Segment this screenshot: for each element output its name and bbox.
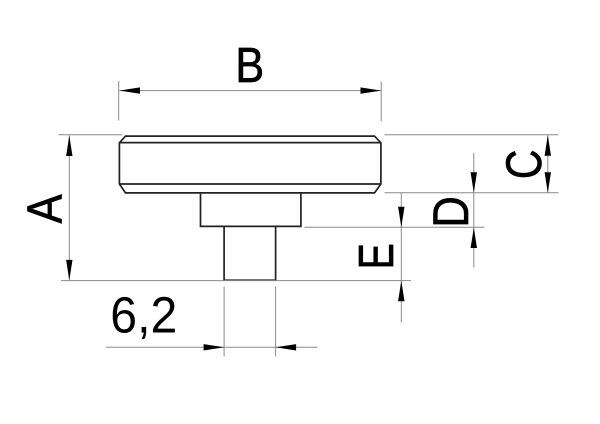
6,2 arrow left (points right): [204, 344, 225, 350]
A arrow top: [66, 136, 72, 157]
body inner edge top: [119, 142, 381, 144]
B dimension line: [120, 90, 382, 92]
extension line top-left (A top): [59, 134, 123, 136]
body outline (knob top section): [119, 136, 381, 280]
svg-text:C: C: [496, 150, 552, 180]
svg-text:A: A: [17, 194, 72, 223]
6,2 arrow right (points left): [276, 344, 297, 350]
E arrow upper (points down to neck bottom line): [398, 207, 404, 228]
body inner edge bottom: [119, 183, 381, 185]
D arrow lower (points up to neck bottom line): [471, 228, 477, 249]
thin extension and dimension lines: [59, 81, 559, 357]
svg-text:E: E: [350, 243, 404, 269]
C arrow bottom: [545, 172, 551, 193]
svg-text:D: D: [423, 196, 478, 227]
6,2 extension line left: [223, 287, 225, 357]
6,2 dimension line: [106, 346, 318, 348]
E dimension line: [400, 192, 402, 322]
arrowheads: [66, 87, 551, 350]
neck: [201, 193, 301, 227]
svg-text:6,2: 6,2: [110, 286, 177, 344]
extension line stem bottom (A bottom / E bottom): [61, 280, 411, 282]
extension line body bottom right (C bottom / D top): [385, 192, 559, 194]
E arrow lower (points up to stem bottom line): [398, 281, 404, 302]
B extension line right: [380, 82, 382, 122]
A arrow bottom: [66, 260, 72, 281]
B extension line left: [118, 81, 120, 121]
D dimension line: [473, 153, 475, 268]
B arrow right: [361, 87, 382, 93]
B arrow left: [120, 87, 141, 93]
stem: [224, 226, 276, 280]
C dimension line: [547, 135, 549, 193]
A dimension line: [68, 136, 70, 281]
extension line neck bottom right (D bottom / E top): [305, 226, 485, 228]
extension line top-right (C top): [385, 134, 559, 136]
svg-text:B: B: [235, 37, 264, 92]
6,2 extension line right: [275, 287, 277, 357]
C arrow top: [545, 135, 551, 156]
D arrow upper (points down to body bottom line): [471, 172, 477, 193]
